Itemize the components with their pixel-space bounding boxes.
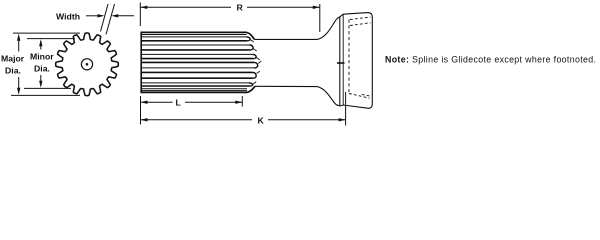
flange rim front edge (342, 14, 344, 105)
flange hidden dashed top inner (350, 23, 371, 26)
svg-text:K: K (258, 115, 265, 125)
flange outline (340, 13, 373, 109)
L dimension line (141, 101, 173, 103)
K dimension line (141, 119, 253, 121)
R right extension line (319, 4, 321, 32)
flange hidden bore dashed vertical (348, 20, 350, 95)
spline teeth lines (141, 34, 246, 36)
width extension slant line 1 (101, 4, 109, 32)
flare top curve (317, 17, 340, 40)
major dia up arrow (18, 36, 20, 52)
spline cross-section gear (56, 33, 119, 96)
flange hidden dashed bottom short (362, 95, 371, 97)
minor dia down arrow (40, 75, 42, 86)
svg-text:R: R (237, 3, 244, 13)
flange centerline tick (337, 62, 345, 64)
minor dia top extension line (27, 38, 75, 40)
tube bottom line (255, 85, 317, 87)
minor dia bottom extension line (24, 87, 71, 89)
svg-text:L: L (176, 97, 182, 107)
spline shaft left edge (140, 32, 142, 93)
R dimension line (140, 6, 231, 8)
svg-text:Minor: Minor (30, 52, 54, 62)
width arrow right (116, 15, 134, 17)
flare bottom curve (317, 87, 340, 106)
major dia top extension line (13, 32, 80, 34)
flange hidden dashed bottom (349, 94, 370, 99)
L right extension line (241, 96, 243, 107)
svg-text:Note: Spline is Glidecote exce: Note: Spline is Glidecote except where f… (385, 55, 596, 65)
L/K left extension line (140, 96, 142, 125)
gear center dot (86, 63, 89, 66)
spline top edge (141, 32, 255, 39)
major dia bottom extension line (11, 94, 80, 96)
flange hidden dashed top outer (350, 17, 371, 20)
width extension slant line 2 (106, 4, 115, 35)
width arrow left (86, 15, 100, 17)
svg-text:Width: Width (56, 12, 80, 22)
major dia down arrow (18, 77, 20, 93)
tube top line (255, 38, 318, 40)
R left extension line (139, 3, 141, 27)
flange sleeve left edge (339, 17, 341, 106)
spline bottom edge (141, 86, 256, 92)
K right extension line (345, 92, 347, 126)
svg-text:Major: Major (1, 54, 25, 64)
minor dia up arrow (40, 42, 42, 50)
svg-text:Dia.: Dia. (5, 66, 21, 76)
gear center hole (81, 59, 92, 70)
spline runout curls (247, 37, 251, 41)
svg-text:Dia.: Dia. (34, 64, 50, 74)
